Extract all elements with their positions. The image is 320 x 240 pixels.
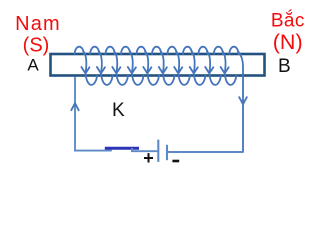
coil turn 4 <box>121 47 143 85</box>
svg-text:K: K <box>112 100 125 121</box>
coil turn 11 <box>229 47 243 152</box>
svg-text:+: + <box>143 148 154 168</box>
battery negative plate (short) <box>166 145 168 160</box>
coil turn 9 <box>199 47 221 85</box>
svg-text:A: A <box>27 56 39 75</box>
coil turn 8 <box>183 47 205 85</box>
coil turn 3 <box>106 47 128 85</box>
current arrow (up) on left wire <box>71 103 78 110</box>
magnet core bar AB <box>51 54 265 76</box>
coil turn 6 <box>152 47 174 85</box>
svg-text:(N): (N) <box>273 30 303 54</box>
wire segment: battery negative to right wire <box>167 151 243 153</box>
coil turn 7 <box>168 47 190 85</box>
svg-text:Bắc: Bắc <box>271 9 305 31</box>
label - (negative terminal) <box>172 160 179 163</box>
current arrow (down) on right wire <box>239 97 247 104</box>
svg-text:B: B <box>278 56 291 77</box>
battery positive plate (long) <box>157 140 159 162</box>
svg-text:(S): (S) <box>23 35 50 57</box>
left wire from coil to bottom <box>75 77 111 151</box>
coil turn 1 <box>75 47 97 85</box>
coil turn 5 <box>137 47 159 85</box>
coil turn 2 <box>90 47 112 85</box>
switch K blade (closed) <box>105 147 139 150</box>
wire segment: switch to battery positive <box>132 148 157 151</box>
svg-text:Nam: Nam <box>15 13 61 35</box>
coil turn 10 <box>214 47 236 85</box>
